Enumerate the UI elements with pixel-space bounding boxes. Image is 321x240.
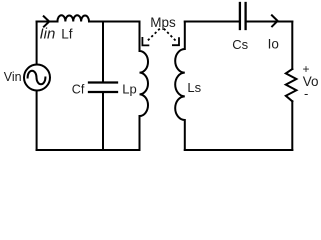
- svg-text:Cs: Cs: [232, 37, 248, 52]
- svg-text:Iin: Iin: [40, 25, 56, 42]
- wire Cf branch lower: [102, 93, 104, 150]
- source U1 circle: [24, 65, 50, 91]
- wire Cf branch upper: [102, 22, 104, 82]
- wire left vertical above source: [36, 22, 38, 65]
- svg-text:Io: Io: [268, 37, 279, 52]
- wire bottom-left: [37, 149, 140, 151]
- wire top-left horizontal: [37, 21, 58, 23]
- wire top (Lf to Lp corner): [89, 21, 140, 23]
- svg-text:Ls: Ls: [187, 80, 201, 95]
- wire right vertical lower: [291, 101, 293, 150]
- mutual coupling arrow left (dashed): [146, 29, 160, 42]
- capacitor Cf plates: [89, 81, 117, 83]
- capacitor Cs plates: [239, 3, 241, 29]
- svg-text:Mps: Mps: [150, 15, 176, 30]
- inductor Lf: [57, 15, 89, 21]
- inductor Ls (secondary coil): [175, 22, 185, 151]
- wire top-right (Ls to Cs): [185, 21, 239, 23]
- resistor Rload zigzag: [286, 69, 297, 101]
- mutual coupling arrow right (dashed): [164, 29, 177, 42]
- svg-text:Cf: Cf: [72, 83, 85, 97]
- wire right vertical upper: [291, 22, 293, 70]
- wire left vertical below source: [36, 91, 38, 151]
- svg-text:Lp: Lp: [122, 82, 136, 97]
- svg-text:-: -: [304, 86, 308, 101]
- svg-text:Vin: Vin: [4, 70, 22, 84]
- current arrow Io: [271, 15, 277, 28]
- wire Cs to corner: [247, 21, 292, 23]
- sine symbol: [28, 71, 46, 85]
- inductor Lp (primary coil): [140, 22, 149, 151]
- wire bottom-right: [185, 149, 292, 151]
- current arrow Iin: [43, 16, 49, 28]
- svg-text:Lf: Lf: [61, 26, 73, 41]
